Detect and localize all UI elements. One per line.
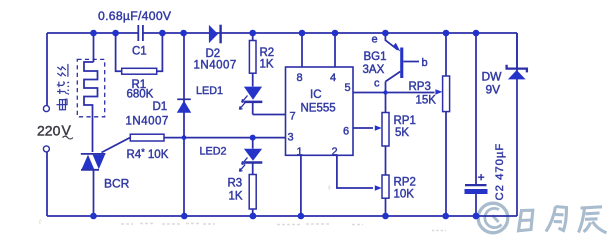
wire left vertical upper — [46, 33, 48, 105]
watermark char 日 — [519, 210, 533, 231]
wire pin5 horizontal — [353, 92, 435, 94]
op-amp timer IC NE555 box — [286, 67, 354, 155]
wire BCR gate diagonal — [102, 138, 131, 153]
svg-text:IC: IC — [310, 89, 322, 101]
svg-text:4: 4 — [330, 72, 336, 84]
svg-text:1K: 1K — [229, 191, 243, 203]
wire R4 right / pin3 net horizontal — [164, 137, 286, 139]
wire LED2 cathode to R3 — [252, 163, 254, 175]
wire BCR bottom to rail — [93, 170, 95, 217]
resistor R4 box — [130, 134, 164, 141]
potentiometer RP1 box — [382, 113, 389, 147]
svg-text:RP3: RP3 — [409, 81, 431, 93]
svg-text:R2: R2 — [260, 47, 275, 59]
junction dots top rail — [90, 30, 97, 37]
LED2 emission arrows — [239, 158, 247, 172]
capacitor C2 top plate — [465, 184, 487, 186]
faint gray artifacts — [40, 186, 446, 231]
svg-text:D2: D2 — [206, 48, 221, 60]
CIRCUIT-GROUP — [47, 25, 517, 216]
heating element meander — [84, 62, 98, 152]
zener DW bar with wings — [507, 65, 527, 73]
wire left vertical lower — [46, 152, 48, 216]
svg-text:e: e — [372, 34, 378, 46]
pot RP3 wiper arrowhead — [435, 89, 442, 94]
svg-text:NE555: NE555 — [301, 103, 336, 115]
svg-text:5: 5 — [345, 82, 351, 94]
svg-text:C1: C1 — [132, 46, 147, 58]
svg-text:1N4007: 1N4007 — [126, 116, 169, 128]
transistor BG1 base bar — [400, 48, 403, 79]
watermark char 月 — [546, 207, 567, 232]
BCR top bar — [81, 153, 106, 155]
wire R3 bottom to rail — [252, 209, 254, 216]
LED1 triangle — [244, 87, 262, 100]
transistor BG1 base lead — [403, 61, 419, 63]
svg-text:220: 220 — [37, 123, 61, 139]
svg-text:BG1: BG1 — [364, 51, 387, 63]
svg-text:RP2: RP2 — [394, 177, 416, 189]
wire C1R1 branch left — [116, 33, 122, 71]
watermark char 辰 — [579, 207, 607, 233]
WATERMARK-GROUP — [478, 203, 606, 233]
glyph 热 — [57, 82, 69, 95]
glyph 电 — [57, 99, 68, 110]
diode D1 cathode bar — [177, 98, 191, 100]
wire top rail left segment — [47, 32, 138, 34]
watermark logo crescent — [485, 208, 502, 227]
wire RP1 to RP2 — [385, 146, 387, 175]
resistor R2 box — [249, 41, 256, 74]
wire C1R1 branch right — [157, 33, 163, 71]
capacitor C2 plus sign — [478, 174, 484, 180]
label 电热丝 (heater wire, rotated) — [57, 64, 70, 110]
junction dot R4/D1 cross — [182, 135, 187, 140]
svg-text:1N4007: 1N4007 — [194, 60, 237, 72]
TEXT-GROUP — [37, 9, 506, 203]
capacitor C2 bottom plate — [465, 189, 488, 194]
svg-text:1K: 1K — [260, 59, 274, 71]
pot RP1 wiper arrowhead (pin6) — [375, 125, 382, 130]
LED1 cathode bar — [244, 101, 262, 104]
wire pin3 junction to LED2 — [252, 138, 254, 149]
wire pin2 L-shape — [337, 155, 373, 188]
BCR triac left triangle — [82, 155, 95, 170]
svg-text:RP1: RP1 — [394, 115, 416, 127]
svg-text:15K: 15K — [416, 95, 437, 107]
potentiometer RP3 box — [443, 76, 450, 112]
wire D1 column — [183, 33, 185, 216]
svg-text:DW: DW — [482, 70, 503, 84]
zener DW triangle — [508, 70, 526, 79]
wire heater column top — [93, 33, 95, 62]
svg-text:6: 6 — [343, 126, 349, 138]
svg-text:R4* 10K: R4* 10K — [127, 147, 169, 161]
wire LED1 cathode down — [252, 102, 254, 115]
watermark logo ring — [478, 203, 508, 233]
wire pin4 vertical — [334, 33, 336, 67]
junction dot collector/pin5 — [383, 90, 387, 94]
BCR triac right triangle — [93, 155, 105, 170]
junction dot pin3 net at LED2 — [250, 135, 256, 141]
pot RP2 wiper arrowhead (pin2) — [375, 185, 382, 190]
wire R2 column top — [252, 33, 254, 41]
svg-text:680K: 680K — [127, 89, 154, 101]
svg-text:LED2: LED2 — [200, 146, 227, 158]
LED1 emission arrows — [239, 96, 247, 110]
wire pin7 horizontal — [253, 114, 286, 116]
svg-text:10K: 10K — [394, 189, 415, 201]
svg-text:c: c — [374, 78, 380, 90]
wire RP3 column top — [445, 33, 447, 76]
svg-text:7: 7 — [290, 111, 296, 123]
capacitor C1 plate right — [142, 25, 144, 41]
transistor BG1 emitter arrowhead — [393, 43, 401, 52]
wire R2 to LED1 — [252, 73, 254, 86]
svg-text:9V: 9V — [486, 83, 501, 97]
svg-text:LED1: LED1 — [196, 85, 223, 97]
LED2 cathode bar — [244, 161, 262, 164]
svg-text:0.68µF/400V: 0.68µF/400V — [98, 9, 172, 23]
diode D1 triangle — [177, 101, 191, 113]
LED2 triangle — [244, 149, 262, 161]
tilde under V — [63, 136, 73, 139]
svg-text:C2 470µF: C2 470µF — [494, 143, 506, 201]
wire RP3 column bottom — [445, 112, 447, 216]
wire top rail right segment — [143, 32, 517, 34]
resistor R1 box — [122, 68, 157, 74]
wire RP2 to rail — [385, 198, 387, 216]
svg-text:D1: D1 — [153, 101, 168, 113]
wire C2 column top — [475, 33, 477, 184]
svg-text:R3: R3 — [228, 178, 243, 190]
wire collector column to RP1 — [385, 82, 387, 113]
BCR bottom bar — [81, 169, 99, 171]
diode D2 cathode bar — [219, 25, 221, 44]
heating element dashed box — [77, 59, 104, 116]
svg-text:b: b — [422, 57, 428, 69]
wire bottom rail — [47, 215, 517, 217]
wire C2 column bottom — [475, 194, 477, 216]
wire right edge vertical — [516, 33, 518, 216]
potentiometer RP2 box — [382, 175, 389, 198]
wire pin1 vertical — [300, 155, 302, 216]
capacitor C1 plate left — [137, 25, 139, 41]
diode D2 triangle — [209, 25, 218, 43]
svg-text:2: 2 — [332, 146, 338, 158]
terminal circle bottom (220V) — [43, 146, 49, 152]
resistor R3 box — [249, 175, 256, 210]
svg-text:3: 3 — [288, 132, 294, 144]
svg-text:8: 8 — [297, 72, 303, 84]
svg-text:1: 1 — [297, 146, 303, 158]
transistor BG1 emitter diagonal — [385, 34, 397, 50]
transistor BG1 collector diagonal — [386, 72, 401, 82]
svg-text:5K: 5K — [395, 127, 409, 139]
glyph 丝 — [57, 64, 68, 77]
wire DW column top — [516, 33, 518, 68]
terminal circle top (220V) — [43, 106, 49, 112]
junction dots bottom rail — [90, 213, 97, 220]
svg-text:V: V — [62, 122, 72, 138]
svg-text:3AX: 3AX — [363, 64, 385, 76]
wire pin8 vertical — [301, 33, 303, 67]
wire pin6 horizontal — [353, 127, 373, 129]
svg-text:BCR: BCR — [104, 177, 130, 191]
